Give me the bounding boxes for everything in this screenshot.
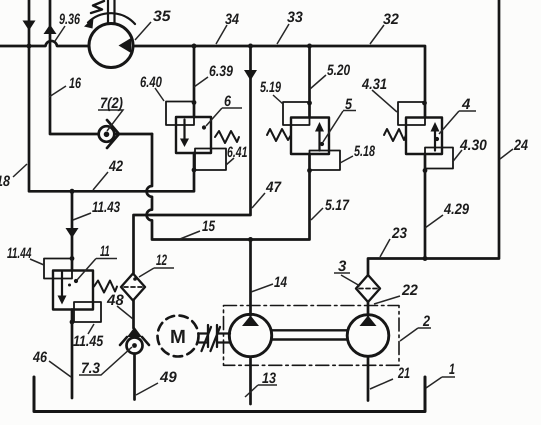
svg-text:4.30: 4.30: [459, 137, 487, 154]
svg-text:4: 4: [461, 96, 471, 113]
svg-text:5.17: 5.17: [325, 197, 349, 214]
svg-text:1: 1: [449, 361, 455, 378]
svg-text:6.41: 6.41: [227, 144, 247, 161]
svg-text:18: 18: [0, 173, 11, 190]
svg-text:35: 35: [153, 8, 171, 25]
svg-text:M: M: [170, 327, 186, 348]
svg-text:7.3: 7.3: [81, 360, 101, 377]
svg-text:13: 13: [262, 370, 277, 387]
svg-text:5.18: 5.18: [354, 143, 375, 160]
svg-text:6.39: 6.39: [209, 63, 233, 80]
svg-text:46: 46: [32, 349, 47, 366]
svg-text:23: 23: [391, 225, 408, 242]
svg-text:12: 12: [156, 252, 167, 269]
svg-text:4.29: 4.29: [443, 201, 470, 218]
svg-text:2: 2: [422, 313, 430, 330]
svg-text:5: 5: [345, 96, 353, 113]
svg-text:5.20: 5.20: [327, 62, 351, 79]
svg-text:11.45: 11.45: [73, 333, 104, 350]
svg-text:47: 47: [265, 179, 282, 196]
svg-text:6: 6: [224, 93, 232, 110]
svg-text:21: 21: [397, 365, 410, 382]
svg-text:33: 33: [287, 9, 303, 26]
svg-text:11.43: 11.43: [92, 199, 121, 216]
svg-text:14: 14: [274, 274, 288, 291]
svg-text:5.19: 5.19: [260, 79, 281, 96]
svg-text:15: 15: [202, 218, 216, 235]
svg-text:24: 24: [513, 137, 528, 154]
svg-text:11: 11: [100, 243, 110, 260]
svg-text:49: 49: [159, 369, 177, 386]
svg-text:48: 48: [106, 292, 124, 309]
svg-text:7(2): 7(2): [100, 95, 123, 112]
svg-text:16: 16: [69, 75, 81, 92]
svg-text:22: 22: [401, 282, 418, 299]
svg-text:11.44: 11.44: [7, 245, 32, 262]
svg-text:34: 34: [225, 11, 240, 28]
svg-text:6.40: 6.40: [140, 74, 162, 91]
svg-text:42: 42: [108, 158, 123, 175]
svg-text:9.36: 9.36: [59, 11, 80, 28]
svg-text:4.31: 4.31: [361, 76, 387, 93]
svg-text:3: 3: [338, 258, 347, 275]
svg-text:32: 32: [383, 11, 399, 28]
